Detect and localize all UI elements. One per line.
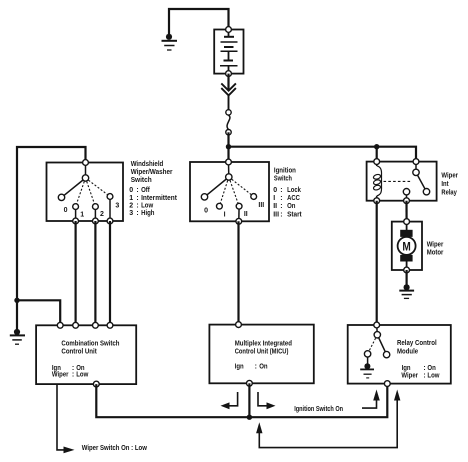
relay control module label text (397, 340, 440, 379)
wire relay contact to wiper motor (405, 201, 407, 222)
svg-text:Ignition Switch On: Ignition Switch On (294, 406, 343, 413)
svg-text::: : (280, 187, 282, 194)
svg-text:ACC: ACC (287, 195, 300, 202)
svg-text:3: 3 (129, 210, 133, 217)
svg-text:Switch: Switch (131, 177, 152, 184)
svg-text::: : (136, 210, 138, 217)
multiplex integrated control unit box (209, 325, 313, 384)
wire fuse to ignition switch (227, 132, 229, 162)
node junction left feed (14, 298, 19, 303)
svg-text:I: I (273, 195, 275, 202)
svg-text:M: M (402, 239, 410, 253)
wire switch pin2 down (94, 221, 96, 325)
svg-text:Control Unit: Control Unit (61, 348, 97, 355)
svg-text:Windshield: Windshield (131, 161, 164, 168)
svg-text::: : (136, 203, 138, 210)
svg-text:Wiper/Washer: Wiper/Washer (131, 169, 173, 176)
svg-text:Wiper: Wiper (52, 372, 69, 379)
combination unit label text (52, 340, 120, 378)
wire switch pin1 down (74, 221, 76, 325)
wiper/washer switch contacts (58, 160, 113, 224)
fuse (226, 110, 231, 135)
svg-text:Low: Low (76, 372, 89, 379)
relay dashed link (384, 180, 413, 182)
wiper switch position labels (64, 203, 120, 219)
annotation arrow into relay module (362, 390, 380, 409)
svg-text:Wiper Switch On : Low: Wiper Switch On : Low (82, 445, 148, 452)
svg-text:III: III (273, 211, 279, 218)
fusible link (double arrow) (221, 83, 236, 110)
ground G1 top left (162, 34, 178, 50)
svg-text:3: 3 (115, 203, 119, 210)
wire ignition to MICU (237, 221, 239, 324)
wire motor to ground (406, 270, 408, 286)
svg-text:Wiper: Wiper (427, 241, 444, 248)
MICU terminals (236, 322, 253, 386)
annotation arrow module to bus (256, 390, 400, 448)
svg-text:Ign: Ign (235, 364, 244, 371)
svg-text:High: High (141, 210, 154, 217)
svg-text:0: 0 (129, 187, 133, 194)
wiper motor M (398, 219, 416, 273)
svg-text:Ign: Ign (402, 365, 411, 372)
svg-text:Relay: Relay (441, 189, 457, 196)
svg-text::: : (280, 203, 282, 210)
wire relay coil branch (376, 147, 378, 162)
windshield wiper/washer switch box (47, 163, 124, 222)
svg-text::: : (280, 195, 282, 202)
svg-text::: : (136, 195, 138, 202)
wiper motor label text (427, 241, 444, 256)
svg-text:II: II (273, 203, 277, 210)
wire battery to fuse (227, 74, 229, 90)
ignition position labels (204, 202, 264, 218)
svg-text:On: On (287, 203, 295, 210)
svg-text:0: 0 (64, 207, 68, 214)
annotation arrow MICU left (221, 392, 238, 409)
svg-text:Intermittent: Intermittent (141, 195, 177, 202)
svg-text:Control Unit (MICU): Control Unit (MICU) (235, 348, 289, 355)
svg-text::: : (423, 372, 425, 379)
svg-text::: : (423, 365, 425, 372)
annotation arrow MICU right (258, 392, 276, 409)
svg-text::: : (280, 211, 282, 218)
wire left feed to wiper switch (17, 147, 86, 332)
ignition switch contacts (201, 159, 256, 224)
svg-text::: : (136, 187, 138, 194)
svg-text:I: I (224, 212, 226, 219)
battery (214, 27, 243, 77)
svg-text:On: On (427, 365, 435, 372)
svg-text:III: III (258, 202, 264, 209)
relay coil (373, 162, 382, 201)
relay terminals (374, 159, 419, 204)
MICU label text (235, 341, 292, 371)
wire relay coil to relay control module (376, 201, 378, 325)
svg-text:2: 2 (100, 211, 104, 218)
wire junction to combination unit pin1 (17, 300, 60, 325)
wire battery top to ground (169, 9, 229, 34)
wire bus combination to relay module (96, 384, 387, 418)
ground G2 left (10, 329, 25, 344)
wiper int relay label text (441, 172, 458, 196)
svg-text:Relay Control: Relay Control (397, 340, 437, 347)
node junction relay branch (374, 144, 379, 149)
node bus junction (247, 415, 252, 420)
ground G3 motor (399, 284, 414, 298)
svg-text:0: 0 (273, 187, 277, 194)
node junction fuse output (226, 144, 231, 149)
svg-text:Wiper: Wiper (401, 372, 418, 379)
svg-text:Lock: Lock (287, 187, 301, 194)
svg-text:Int: Int (441, 181, 449, 188)
relay control module terminals (374, 322, 390, 386)
combination unit terminals (57, 322, 113, 387)
wire to wiper int relay (229, 147, 417, 162)
svg-text:Start: Start (287, 211, 302, 218)
svg-text:Combination Switch: Combination Switch (61, 340, 119, 347)
svg-text:Ignition: Ignition (274, 167, 296, 174)
ignition switch label text (273, 167, 302, 218)
ground G4 in relay control module (360, 363, 374, 378)
svg-text:1: 1 (80, 212, 84, 219)
svg-text:Switch: Switch (274, 176, 292, 183)
svg-text:Low: Low (141, 203, 154, 210)
relay contact (403, 162, 429, 201)
svg-text:Motor: Motor (427, 250, 444, 257)
relay control module switch (364, 325, 389, 364)
svg-text:Wiper: Wiper (441, 172, 458, 179)
annotation wire wiper switch on low (57, 384, 75, 453)
svg-text:II: II (244, 211, 248, 218)
svg-text::: : (72, 372, 74, 379)
wiper/washer switch label text (129, 161, 177, 217)
combination switch control unit box (36, 325, 136, 384)
ignition switch box (190, 162, 269, 221)
svg-text:Off: Off (141, 187, 150, 194)
svg-text:1: 1 (129, 195, 133, 202)
svg-text::: : (255, 364, 257, 371)
relay control module box (348, 325, 451, 384)
wire MICU to bus (248, 383, 250, 417)
svg-text:Multiplex Integrated: Multiplex Integrated (235, 341, 292, 348)
svg-text:2: 2 (129, 203, 133, 210)
svg-text:Low: Low (427, 372, 440, 379)
svg-text:0: 0 (204, 207, 208, 214)
svg-text:On: On (259, 364, 267, 371)
wiper motor box (392, 222, 422, 270)
svg-text:Module: Module (397, 348, 418, 355)
wiper int relay box (367, 162, 437, 201)
wire switch pin3 down (109, 221, 111, 325)
